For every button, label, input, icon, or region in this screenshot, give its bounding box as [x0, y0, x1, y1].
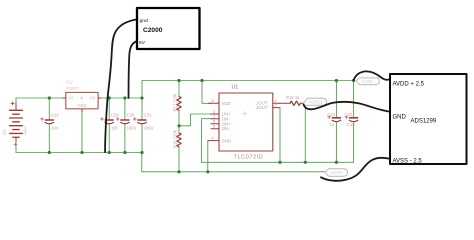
svg-text:1: 1: [275, 99, 277, 103]
junction: R16 bottom on ground rail: [177, 170, 180, 173]
svg-text:C29: C29: [111, 113, 119, 118]
svg-text:7: 7: [275, 104, 277, 108]
wire: divider tap to 1IN+: [179, 114, 211, 126]
wire: 2OUT feedback drop: [279, 108, 281, 163]
svg-text:AVSS - 2.5: AVSS - 2.5: [393, 158, 423, 164]
capacitor C33: [344, 81, 358, 163]
svg-text:IC2: IC2: [66, 79, 74, 84]
junction: C31 bottom: [140, 151, 143, 154]
capacitor C29: [101, 98, 120, 153]
wire: ground rail (battery negative) with step down: [16, 153, 325, 172]
wire: 1IN- feedback drop: [202, 119, 211, 163]
junction: C30 bottom: [123, 151, 126, 154]
junction: C29 bottom: [108, 151, 111, 154]
svg-text:AAA: AAA: [22, 126, 27, 135]
wire: 5V input rail from battery to IC2 VI: [16, 97, 63, 99]
black jumper: AVDD flag to ADS1299 AVDD pin: [354, 71, 390, 80]
black jumper: ADS1299 AVSS pin to AGND: [321, 158, 390, 181]
op-amp U1 TLC072ID: [208, 85, 280, 161]
capacitor C28: [41, 98, 60, 153]
svg-text:GND: GND: [393, 115, 407, 121]
wire: 5V rail right of regulator: [101, 97, 142, 99]
junction: VGND drop on mid-rail: [304, 161, 307, 164]
svg-text:5V: 5V: [139, 40, 146, 46]
voltage regulator IC2 7805T: [63, 79, 101, 112]
svg-text:C30: C30: [127, 113, 135, 118]
resistor R15 1k: [280, 95, 305, 105]
junction: C32 top on distribution rail: [335, 79, 338, 82]
junction: C32 bottom on mid-rail: [335, 161, 338, 164]
svg-text:R15 1k: R15 1k: [286, 95, 300, 100]
black jumper: VGND1 flag to ADS1299 GND pin: [304, 102, 390, 112]
svg-text:U1: U1: [232, 85, 239, 91]
svg-text:2: 2: [213, 115, 215, 119]
svg-text:VDD: VDD: [222, 101, 231, 106]
net flag AGND: [325, 169, 347, 177]
junction: C28 bottom: [48, 151, 51, 154]
svg-text:5: 5: [213, 120, 215, 124]
resistor R16 220k: [173, 126, 182, 172]
wire: mid-rail VGND horizontal: [202, 161, 354, 163]
svg-text:gnd: gnd: [140, 18, 148, 24]
svg-text:R17 220k: R17 220k: [173, 93, 178, 112]
svg-text:TLC072ID: TLC072ID: [234, 154, 264, 160]
junction: op-amp GND on ground rail: [206, 170, 209, 173]
junction: 2OUT drop on mid-rail: [278, 161, 281, 164]
svg-text:6: 6: [213, 125, 215, 129]
svg-text:100u: 100u: [127, 125, 137, 130]
junction: rail end at AVDD flag: [352, 79, 355, 82]
svg-text:C33: C33: [344, 112, 352, 117]
svg-text:10n: 10n: [51, 125, 59, 130]
svg-text:GND: GND: [77, 103, 87, 108]
junction: C29 top: [108, 96, 111, 99]
battery G1: [10, 102, 23, 146]
junction: VDD elbow on distribution rail: [200, 79, 203, 82]
black jumper: C2000 gnd to ground rail: [105, 20, 136, 153]
capacitor C32: [327, 81, 341, 163]
svg-text:ADS1299: ADS1299: [411, 118, 437, 124]
svg-text:10n: 10n: [111, 125, 119, 130]
svg-text:C32: C32: [327, 112, 335, 117]
junction: C28 top: [48, 96, 51, 99]
svg-text:2IN-: 2IN-: [222, 126, 231, 131]
junction: divider tap: [177, 124, 180, 127]
capacitor C30: [116, 98, 136, 153]
resistor R17 220k: [173, 81, 182, 126]
svg-text:C28: C28: [51, 113, 59, 118]
net flag VGND1: [304, 98, 327, 105]
svg-text:R16 220k: R16 220k: [173, 129, 178, 148]
svg-text:2OUT: 2OUT: [256, 105, 268, 110]
svg-text:AGND: AGND: [330, 170, 342, 175]
svg-text:1u: 1u: [330, 122, 335, 127]
wire: battery negative stub: [15, 142, 17, 153]
svg-text:0.1u: 0.1u: [347, 122, 356, 127]
svg-text:GND: GND: [222, 139, 232, 144]
svg-text:8: 8: [212, 99, 214, 103]
svg-text:VO: VO: [89, 95, 96, 100]
black jumper: C2000 5V to +5V rail: [129, 42, 137, 99]
wire: IC2 GND to ground rail: [81, 113, 83, 153]
svg-text:7805T: 7805T: [66, 86, 79, 91]
MCU module C2000: [137, 8, 200, 49]
junction: C30 top: [123, 96, 126, 99]
svg-text:100u: 100u: [144, 125, 154, 130]
origin cross: [243, 112, 247, 116]
capacitor C31: [133, 98, 153, 153]
wire: VGND node drop: [304, 104, 306, 163]
svg-text:3: 3: [213, 110, 215, 114]
net flag AVDD: [356, 78, 379, 85]
svg-text:C2000: C2000: [143, 27, 163, 34]
svg-text:G1: G1: [2, 129, 7, 135]
wire: VDD supply elbow: [202, 81, 211, 104]
svg-text:AVDD: AVDD: [361, 79, 373, 84]
junction: R17 top on distribution rail: [177, 79, 180, 82]
svg-text:AVDD + 2.5: AVDD + 2.5: [393, 81, 425, 87]
svg-text:4: 4: [212, 136, 214, 140]
junction: C31 top: [140, 96, 143, 99]
svg-text:VGND1: VGND1: [308, 100, 323, 105]
wire: +5V distribution rail (riser and top run): [142, 81, 354, 99]
wire: battery positive stub: [15, 98, 17, 103]
junction: IC2 GND: [80, 151, 83, 154]
svg-text:C31: C31: [144, 113, 152, 118]
wire: op-amp GND pin to ground rail: [207, 141, 209, 172]
ADC module ADS1299: [390, 74, 467, 164]
svg-text:VI: VI: [69, 95, 73, 100]
